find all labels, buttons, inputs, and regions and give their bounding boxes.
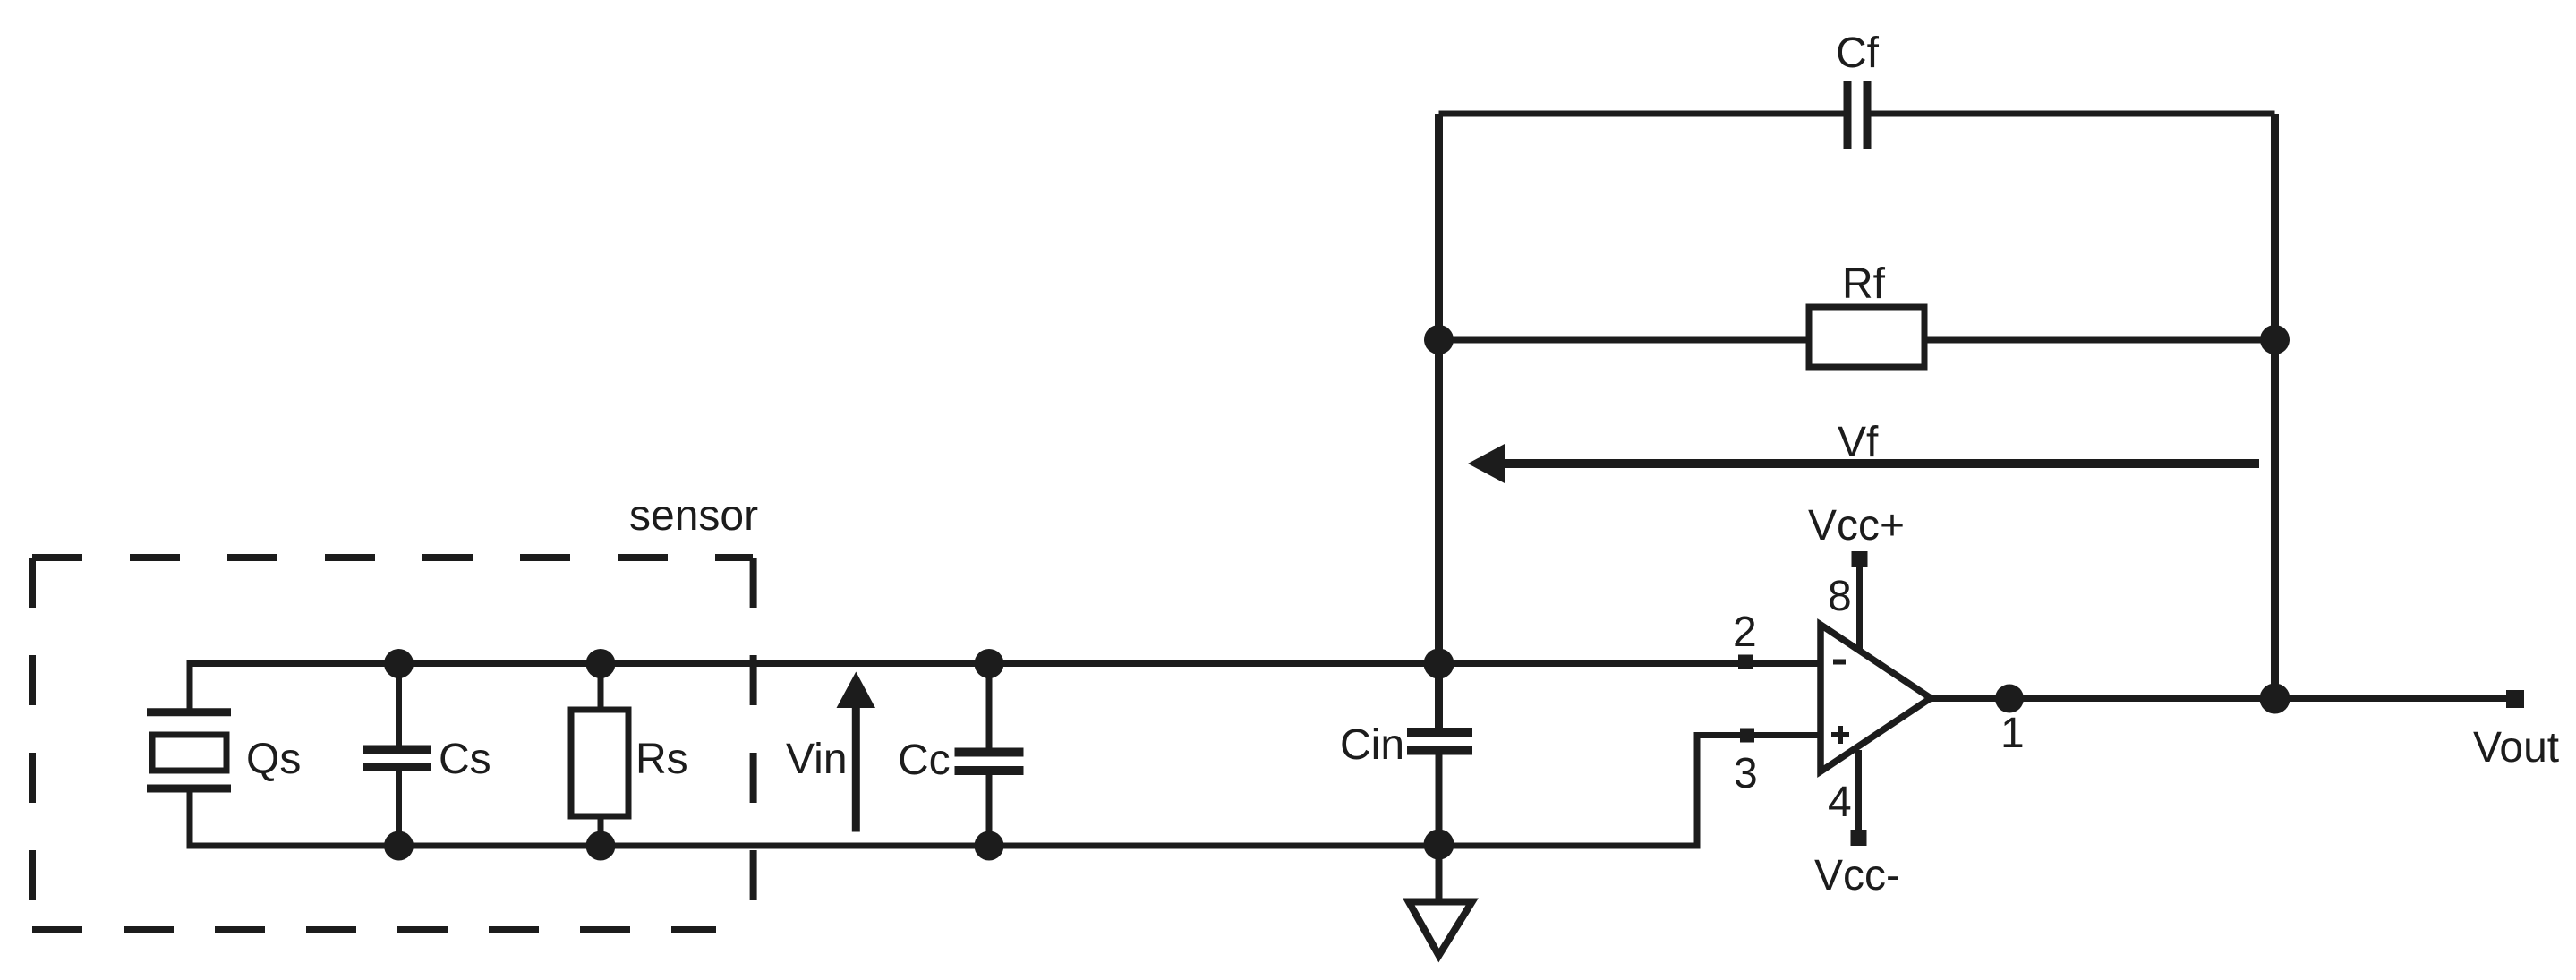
node dot feedback output junction: [2260, 684, 2290, 714]
wire Qs bottom stub: [187, 788, 193, 848]
Vf arrow: [1468, 444, 2259, 483]
svg-text:Cin: Cin: [1340, 721, 1404, 769]
op-amp minus sign: [1833, 660, 1846, 665]
op-amp plus sign: [1831, 726, 1849, 744]
wire Cc bottom stub: [986, 771, 993, 846]
svg-text:Vcc-: Vcc-: [1814, 852, 1900, 899]
svg-text:sensor: sensor: [629, 492, 758, 540]
svg-text:Vf: Vf: [1838, 419, 1879, 466]
ground: [1409, 902, 1472, 956]
wire Cs bottom stub: [396, 767, 402, 846]
svg-text:Rs: Rs: [635, 736, 688, 783]
pin 4 pad: [1851, 830, 1867, 846]
Vout terminal pad: [2506, 690, 2524, 708]
wire feedback left column: [1435, 114, 1443, 732]
node dot output 1: [1995, 685, 2024, 713]
wire Rs top stub: [598, 664, 604, 712]
wire bottom net (ground rail to op-amp non-inverting input): [187, 736, 1821, 847]
pin 2 pad: [1738, 655, 1753, 669]
capacitor Cc: [955, 753, 1024, 771]
crystal Qs: [147, 712, 231, 788]
capacitor Cin: [1407, 732, 1472, 751]
wire feedback right column: [2271, 114, 2279, 699]
wire top net (sensor output to op-amp inverting input): [187, 660, 1821, 667]
svg-text:1: 1: [2000, 710, 2025, 757]
svg-text:Cc: Cc: [898, 737, 951, 784]
svg-text:8: 8: [1828, 573, 1852, 620]
svg-text:Vin: Vin: [786, 736, 848, 783]
wire Cc top stub: [986, 664, 993, 753]
svg-text:2: 2: [1733, 609, 1757, 656]
svg-text:Rf: Rf: [1842, 260, 1886, 308]
pin 4 wire: [1855, 750, 1862, 838]
sensor dashed box: [32, 558, 754, 930]
svg-text:Vcc+: Vcc+: [1808, 502, 1905, 550]
pin 3 pad: [1740, 729, 1754, 743]
node dot bottom Rs: [586, 831, 616, 861]
wire Cs top stub: [396, 664, 402, 750]
capacitor Cs: [363, 750, 431, 768]
wire Rf branch: [1439, 337, 2275, 344]
op-amp U1: [1821, 625, 1931, 771]
node dot Rf left: [1424, 325, 1454, 354]
resistor Rs: [571, 710, 628, 816]
node dot bottom Cc: [975, 831, 1004, 861]
svg-text:3: 3: [1734, 750, 1758, 797]
node dot Cin bottom: [1424, 830, 1454, 860]
node dot bottom Cs: [384, 831, 414, 861]
svg-text:Cf: Cf: [1836, 30, 1880, 77]
pin 8 pad: [1852, 551, 1868, 567]
node dot top Cs: [384, 649, 414, 678]
wire Rs bottom stub: [598, 814, 604, 846]
svg-text:Qs: Qs: [246, 736, 301, 783]
Vin arrow: [837, 672, 876, 832]
wire Cin bottom stub: [1436, 751, 1443, 902]
svg-text:4: 4: [1828, 779, 1852, 826]
node dot top Cc: [975, 649, 1004, 678]
resistor Rf: [1809, 307, 1924, 367]
wire Cf branch top: [1439, 111, 2275, 117]
capacitor Cf: [1847, 81, 1867, 149]
wire output net: [1931, 695, 2515, 702]
pin 8 wire: [1856, 559, 1863, 652]
node dot top Rs: [586, 649, 616, 678]
svg-text:Cs: Cs: [439, 736, 491, 783]
node dot Rf right: [2260, 325, 2290, 354]
node dot Cin top: [1424, 649, 1454, 679]
svg-text:Vout: Vout: [2473, 724, 2559, 771]
wire Qs top stub: [187, 660, 193, 712]
